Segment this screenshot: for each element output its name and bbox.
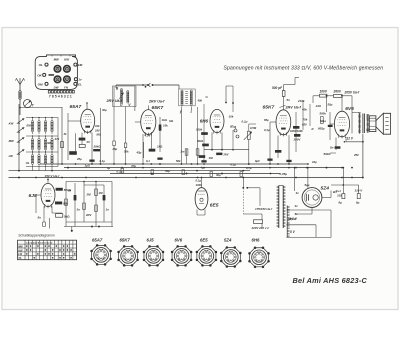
tube 6J5 — [29, 174, 72, 227]
svg-text:4μ: 4μ — [106, 166, 111, 170]
svg-text:8μF: 8μF — [255, 159, 260, 163]
electrolytic caps — [331, 167, 360, 199]
svg-text:EL: EL — [78, 82, 82, 86]
svg-text:16μ: 16μ — [312, 160, 317, 164]
jack contacts — [230, 124, 239, 138]
svg-text:3v: 3v — [295, 204, 299, 208]
svg-text:47μ: 47μ — [130, 164, 136, 168]
tone feedback network — [49, 181, 113, 232]
svg-text:180: 180 — [95, 129, 100, 133]
svg-text:MW: MW — [54, 58, 59, 62]
svg-text:150 V Ua-f: 150 V Ua-f — [45, 174, 61, 178]
svg-text:7: 7 — [49, 94, 51, 98]
svg-text:260V: 260V — [333, 89, 342, 93]
svg-text:805μ: 805μ — [318, 126, 325, 130]
power transformer — [277, 186, 290, 238]
svg-text:47k: 47k — [54, 137, 60, 141]
svg-text:0,4μ: 0,4μ — [264, 128, 270, 132]
band coil bank — [9, 104, 58, 171]
svg-text:2RV: 2RV — [223, 154, 229, 157]
svg-text:25μ: 25μ — [112, 147, 118, 151]
tube 6V6 output — [318, 106, 363, 156]
svg-text:1kΩ: 1kΩ — [162, 118, 168, 122]
svg-text:30μ: 30μ — [216, 173, 221, 177]
svg-text:OM: OM — [38, 82, 43, 86]
svg-text:315: 315 — [337, 194, 342, 198]
svg-text:500k: 500k — [320, 112, 327, 116]
svg-text:KW: KW — [18, 249, 23, 252]
svg-text:65μ: 65μ — [264, 118, 269, 122]
svg-text:Spannungen mit Instrument 333: Spannungen mit Instrument 333 Ω/V, 600 V… — [224, 65, 384, 71]
model title Bel Ami AHS 6823-C — [293, 276, 368, 285]
top bus wire — [116, 83, 179, 89]
svg-text:1kΩ: 1kΩ — [157, 145, 163, 149]
svg-text:z: z — [189, 109, 192, 113]
bus wires middle — [9, 159, 364, 178]
antenna — [16, 78, 25, 104]
svg-text:45μ: 45μ — [136, 151, 142, 155]
svg-text:Schaltklappendiagramm: Schaltklappendiagramm — [18, 233, 55, 237]
IF transformer y z — [179, 89, 199, 164]
socket 6V6 — [171, 237, 193, 266]
B+ feed wire right — [362, 134, 364, 179]
svg-text:2M: 2M — [86, 193, 92, 197]
svg-text:8: 8 — [52, 94, 54, 98]
oscillator coil B U V — [113, 86, 137, 111]
svg-text:5Z4: 5Z4 — [224, 237, 232, 242]
svg-text:1v: 1v — [78, 78, 82, 82]
extra junction dots — [18, 149, 353, 179]
svg-text:1MΩ/100k: 1MΩ/100k — [290, 129, 303, 133]
svg-text:OK: OK — [37, 73, 42, 77]
voltage labels over 6V6 — [320, 89, 360, 94]
dark caps on buses — [89, 158, 291, 163]
socket 6E5 — [196, 237, 218, 266]
svg-text:50k: 50k — [176, 159, 181, 163]
svg-text:1M: 1M — [99, 191, 104, 195]
svg-text:6E5: 6E5 — [210, 203, 219, 209]
svg-text:B+1: B+1 — [336, 189, 342, 193]
svg-text:3: 3 — [64, 94, 66, 98]
svg-text:6E5: 6E5 — [200, 237, 208, 242]
svg-text:EM: EM — [78, 63, 83, 67]
svg-text:50μ: 50μ — [328, 103, 333, 107]
svg-text:-10Ω: -10Ω — [315, 104, 322, 108]
svg-text:50k: 50k — [124, 150, 129, 154]
svg-text:8μ: 8μ — [339, 201, 343, 205]
socket 65K7 — [117, 237, 139, 266]
svg-text:2RV Ua-f: 2RV Ua-f — [106, 99, 123, 103]
svg-text:3n: 3n — [77, 208, 81, 212]
svg-text:1 2 3 4 5 6 7 8 9 10 11 12 13: 1 2 3 4 5 6 7 8 9 10 11 12 13 — [26, 242, 53, 245]
svg-text:20kΩ: 20kΩ — [93, 145, 102, 149]
extra parts under 6H6 — [216, 130, 234, 157]
svg-text:12 V: 12 V — [347, 137, 354, 141]
svg-text:1n: 1n — [106, 208, 110, 212]
svg-text:MW: MW — [18, 245, 23, 248]
svg-text:DW: DW — [54, 85, 59, 89]
tube 6H6 detector — [196, 86, 249, 160]
svg-text:6J5: 6J5 — [29, 193, 37, 199]
svg-text:0,1: 0,1 — [146, 159, 150, 163]
svg-text:250: 250 — [353, 153, 359, 157]
svg-text:4μ: 4μ — [200, 166, 205, 170]
svg-text:KW: KW — [64, 58, 69, 62]
svg-text:8μ: 8μ — [356, 201, 360, 205]
svg-text:2RV Ua-f: 2RV Ua-f — [148, 100, 165, 104]
tube 6SK7 IF — [135, 100, 174, 165]
svg-text:MW: MW — [9, 139, 14, 143]
svg-text:5n: 5n — [330, 145, 334, 149]
svg-text:KW: KW — [9, 122, 14, 126]
svg-text:65K7: 65K7 — [120, 237, 131, 242]
speaker — [366, 113, 391, 134]
svg-text:100k: 100k — [196, 128, 203, 132]
svg-text:5Z4: 5Z4 — [321, 186, 330, 192]
svg-text:0,1μ: 0,1μ — [242, 120, 248, 124]
svg-text:2: 2 — [67, 94, 69, 98]
svg-text:40k: 40k — [301, 108, 307, 112]
svg-text:5: 5 — [55, 94, 57, 98]
misc value labels — [97, 96, 360, 177]
svg-text:65K7: 65K7 — [263, 105, 275, 111]
resistors top right — [313, 94, 352, 112]
svg-text:50kΩ: 50kΩ — [324, 152, 332, 156]
capacitor 500pF — [272, 78, 299, 108]
svg-text:30μ: 30μ — [165, 169, 170, 173]
socket 5Z4 — [220, 237, 242, 267]
svg-text:40k: 40k — [197, 99, 203, 103]
svg-text:6H6: 6H6 — [252, 237, 260, 242]
tube 6SK7 AF — [263, 99, 311, 164]
svg-text:0,1μ: 0,1μ — [100, 159, 106, 163]
svg-text:5n: 5n — [38, 216, 42, 220]
svg-text:25μ: 25μ — [76, 157, 82, 161]
svg-text:10k: 10k — [95, 124, 100, 128]
wave trap T — [19, 100, 62, 116]
svg-text:70k: 70k — [303, 118, 308, 122]
caps on buses — [121, 168, 243, 176]
svg-text:△: △ — [230, 124, 233, 127]
svg-text:65A7: 65A7 — [92, 237, 103, 242]
svg-text:65K7: 65K7 — [152, 105, 164, 111]
socket 6H6 — [248, 237, 270, 268]
svg-text:4,1V: 4,1V — [144, 134, 152, 138]
svg-text:OL: OL — [26, 161, 30, 165]
labels near rectifier — [336, 189, 364, 205]
svg-text:10k: 10k — [163, 124, 168, 128]
socket 6J5 — [143, 237, 165, 266]
title note text — [224, 65, 384, 71]
svg-text:30μ: 30μ — [102, 108, 107, 112]
svg-text:2m: 2m — [180, 150, 186, 154]
svg-text:OL: OL — [39, 63, 43, 67]
svg-text:2RV Ua-f: 2RV Ua-f — [285, 106, 302, 110]
tube 6SA7 — [54, 102, 108, 167]
svg-text:0,1μ: 0,1μ — [246, 166, 252, 170]
svg-text:100k: 100k — [196, 183, 203, 187]
filament winding loops — [286, 210, 331, 237]
svg-text:0,05μ: 0,05μ — [280, 172, 288, 176]
svg-text:3k: 3k — [64, 132, 68, 136]
svg-text:R: R — [312, 127, 314, 131]
output transformer — [352, 113, 369, 134]
svg-text:1M: 1M — [209, 156, 214, 160]
svg-text:6J5: 6J5 — [147, 237, 155, 242]
socket 65A7 — [90, 237, 112, 265]
svg-text:65A7: 65A7 — [70, 104, 82, 110]
svg-text:500k: 500k — [197, 139, 204, 143]
svg-text:LW: LW — [18, 253, 22, 256]
svg-text:100V: 100V — [320, 90, 328, 94]
svg-text:Bel Ami AHS 6823-C: Bel Ami AHS 6823-C — [293, 276, 368, 285]
svg-text:220V 240 v F: 220V 240 v F — [251, 226, 270, 230]
volume potentiometer — [244, 124, 256, 164]
mains switch and cord — [242, 178, 273, 230]
svg-text:1: 1 — [70, 94, 72, 98]
switch table — [18, 233, 77, 260]
svg-text:TA: TA — [18, 257, 21, 260]
svg-text:4: 4 — [58, 94, 60, 98]
tube 5Z4 rectifier — [288, 167, 337, 221]
svg-text:6V6: 6V6 — [345, 106, 354, 112]
svg-text:6: 6 — [61, 94, 63, 98]
tube 6E5 magic eye — [195, 177, 219, 215]
label 2RV Ua-f left — [106, 99, 123, 103]
svg-text:5n: 5n — [287, 98, 291, 102]
svg-text:5kΩ: 5kΩ — [64, 215, 70, 219]
svg-text:1n: 1n — [68, 189, 72, 193]
svg-text:6,3 V: 6,3 V — [290, 217, 298, 221]
band switch connector drum — [35, 55, 83, 90]
svg-text:3v: 3v — [296, 191, 300, 195]
svg-text:500 pF: 500 pF — [272, 86, 283, 90]
svg-text:5μμ: 5μμ — [305, 183, 310, 187]
svg-text:EM: EM — [27, 124, 32, 128]
svg-text:200V: 200V — [293, 138, 302, 142]
svg-text:LW: LW — [9, 154, 14, 158]
svg-text:6V6: 6V6 — [175, 237, 183, 242]
svg-text:0,5M: 0,5M — [250, 126, 257, 130]
svg-text:210k: 210k — [297, 99, 305, 103]
svg-text:10k: 10k — [229, 115, 234, 119]
svg-text:175/150 Ua-f: 175/150 Ua-f — [255, 207, 273, 211]
svg-text:0,1μ: 0,1μ — [231, 163, 237, 167]
svg-text:205V Ua-f: 205V Ua-f — [344, 91, 360, 95]
connector pin strip — [48, 90, 74, 98]
